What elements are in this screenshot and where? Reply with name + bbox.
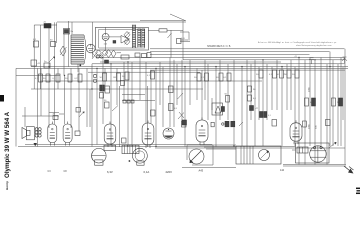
resistor R15 [194, 73, 201, 81]
capacitor C3 [177, 39, 182, 44]
tube V1 triode [87, 44, 96, 53]
tuning diamond D1 [124, 32, 130, 39]
box with triangle [212, 103, 225, 115]
wire [241, 67, 243, 146]
wire [57, 21, 186, 23]
wire [337, 64, 339, 146]
wire [286, 64, 288, 110]
wire [204, 60, 206, 100]
wire [24, 107, 26, 127]
wire [246, 60, 248, 146]
svg-text:1M: 1M [113, 77, 116, 79]
dial drum 2 [129, 148, 148, 163]
shield box (IF stage) [95, 27, 148, 50]
capacitor C12 [211, 122, 214, 127]
tube V5 [104, 122, 116, 148]
wire [15, 68, 17, 146]
wire [92, 22, 94, 58]
wire [100, 61, 281, 63]
volume pot arrows [178, 112, 184, 119]
resistor R13 [122, 72, 129, 80]
funnel electrode [121, 36, 130, 44]
label 100n upper [309, 86, 311, 92]
wire stub [180, 41, 190, 43]
wire [262, 60, 264, 146]
pot arrow upper [178, 93, 184, 99]
resistor R2 [50, 40, 56, 47]
wire [304, 60, 306, 165]
faint note [0, 0, 1, 1]
svg-text:6,3V: 6,3V [107, 170, 113, 174]
wire [122, 95, 155, 101]
capacitor C1 [44, 22, 52, 29]
tube V3 [48, 122, 57, 146]
wire [283, 165, 346, 167]
antenna lead-in wire [170, 14, 185, 21]
svg-text:144: 144 [280, 169, 285, 172]
tube V9 [290, 120, 302, 144]
wire [54, 22, 56, 124]
IF transformer T1 secondary winding [138, 29, 141, 48]
wire [147, 86, 149, 147]
capacitor C14 [272, 120, 277, 127]
resistor R16 [201, 73, 209, 81]
coupling caps (dark) [222, 121, 235, 127]
wire [173, 60, 175, 127]
tuning disc [189, 149, 204, 164]
svg-text:ohne Netzspannung abgleichen u: ohne Netzspannung abgleichen usw. [296, 44, 332, 47]
dial box 1 [104, 145, 116, 150]
wire [215, 67, 217, 147]
component cluster [135, 53, 151, 58]
wire [227, 64, 229, 120]
coil L2 (dark) [100, 85, 105, 98]
wire [78, 68, 80, 131]
wire [63, 29, 65, 75]
wire [184, 67, 186, 147]
wire [169, 58, 171, 128]
label C3 [48, 170, 52, 173]
capacitor C2 [64, 29, 74, 35]
capacitor C13 (dark) [250, 106, 259, 111]
loudspeaker LS [22, 127, 34, 140]
coupling box [75, 131, 80, 136]
aerial symbol 2 [342, 57, 347, 63]
svg-text:2M: 2M [283, 74, 286, 76]
trim arrow drum [330, 142, 337, 148]
wire [150, 54, 310, 56]
wire [314, 60, 316, 165]
note line 1 [258, 41, 337, 44]
resistor R4 [44, 61, 50, 68]
resistor R9 [65, 74, 72, 82]
wire [150, 48, 345, 50]
svg-text:A43: A43 [199, 169, 204, 173]
svg-text:100n: 100n [309, 86, 311, 92]
capacitor C7 [182, 121, 187, 127]
tube V6 [142, 121, 154, 149]
output transformer T2 [35, 128, 41, 137]
resistor R3 [31, 60, 41, 66]
resistor R17 [216, 73, 223, 81]
label 0,05 [181, 38, 186, 40]
wire [140, 20, 186, 22]
registration mark [0, 95, 4, 102]
wire [150, 70, 152, 123]
wire [219, 60, 221, 120]
wire [342, 67, 344, 120]
resistor R8 [52, 74, 60, 82]
text sperrkreis [207, 45, 231, 48]
coil L1 fan winding [71, 35, 86, 64]
wire [71, 22, 73, 34]
wire [96, 68, 98, 144]
resistor R34 [151, 110, 156, 116]
wire [37, 68, 39, 146]
tube V8 [196, 118, 208, 146]
wire [34, 24, 57, 26]
wire [170, 30, 172, 58]
wire [201, 70, 203, 120]
dial drum 1 [92, 148, 107, 165]
wire [294, 67, 296, 146]
resistor R30 [312, 98, 316, 106]
wire [33, 25, 35, 89]
capacitor C15 [122, 138, 127, 143]
wire [77, 64, 79, 72]
arrow [79, 112, 85, 118]
resistor R31 [332, 98, 341, 106]
wire [91, 64, 93, 147]
label 100n [309, 123, 311, 129]
tuning frame [187, 145, 213, 165]
resistor R29 [305, 98, 314, 106]
wire [181, 60, 183, 120]
wire [250, 64, 252, 120]
wire [254, 60, 256, 146]
resistor R36 [303, 121, 307, 127]
wire [281, 67, 283, 146]
mains drum [310, 146, 326, 162]
resistor R10 [74, 74, 82, 82]
wire [258, 67, 260, 120]
wire [64, 75, 66, 124]
title text small [5, 181, 9, 190]
resistor R5 [148, 29, 183, 32]
wire [106, 27, 121, 50]
resistor R23 [292, 70, 299, 78]
svg-text:A. bei ca. 468 kHz Abgl. m. In: A. bei ca. 468 kHz Abgl. m. Instr. u. Os… [258, 41, 337, 44]
wire [276, 60, 278, 110]
wire [332, 60, 334, 146]
switch contacts S1 [93, 74, 96, 82]
wire [196, 68, 198, 100]
wire [31, 88, 203, 90]
capacitor row [123, 100, 134, 103]
wire arrow [239, 122, 243, 126]
resistor R35 [169, 86, 174, 93]
resistor R14 [147, 71, 155, 79]
wire [340, 58, 342, 147]
svg-text:SPERRKREIS F. O. B.: SPERRKREIS F. O. B. [207, 45, 231, 48]
tube V2 (mixer) [102, 33, 116, 45]
wire [88, 71, 200, 73]
wire [57, 68, 59, 89]
grid cap wire [59, 113, 64, 115]
motor rotor [259, 150, 270, 161]
wire [139, 58, 141, 101]
wire [86, 68, 88, 127]
wire stub [180, 32, 189, 41]
wire [18, 146, 292, 148]
wire [344, 49, 346, 165]
title text main [4, 111, 11, 178]
wire [127, 62, 129, 147]
label 0,1A [144, 170, 150, 174]
resistor R12 [113, 73, 121, 81]
wire [183, 59, 345, 61]
wire [290, 60, 292, 110]
wire [131, 62, 133, 147]
junction marker [34, 143, 38, 146]
mains plug arrow [344, 166, 354, 174]
tube V4 [63, 122, 72, 146]
grid resistor [76, 108, 81, 113]
wire [176, 64, 178, 105]
wire [189, 60, 191, 105]
label C8 [64, 170, 68, 173]
wire [104, 68, 106, 86]
wire [56, 22, 58, 43]
potentiometer arrow [112, 106, 118, 112]
resistor R22 [283, 70, 291, 78]
wire [16, 67, 348, 69]
wire [16, 74, 60, 76]
padder diamond D3 [106, 50, 112, 58]
wire [329, 52, 331, 146]
resistor R32 [339, 98, 343, 106]
resistor R1 [33, 39, 39, 47]
wire [182, 21, 184, 60]
IF transformer T1 tertiary winding [142, 29, 145, 48]
svg-text:Olympic 39 W W 564 A: Olympic 39 W W 564 A [4, 111, 11, 178]
wire [155, 68, 157, 146]
resistor R21 [276, 70, 283, 78]
wire [155, 147, 345, 149]
wire [102, 58, 104, 125]
lamp strip [122, 145, 139, 153]
wire [68, 21, 70, 67]
wire [159, 62, 161, 105]
wire [150, 69, 345, 71]
wire [326, 64, 328, 165]
capacitor C9 [326, 120, 331, 126]
wire [271, 67, 273, 110]
wire [298, 58, 300, 165]
label 220V [166, 170, 173, 174]
wire [150, 51, 330, 53]
wire [283, 164, 346, 166]
svg-text:100n: 100n [309, 123, 311, 129]
wire [39, 25, 41, 89]
wire [119, 86, 121, 147]
svg-text:Horny: Horny [5, 181, 9, 190]
padder diamond D4 [111, 50, 116, 58]
capacitor C10 [53, 114, 59, 120]
wire [123, 62, 125, 100]
diamond D5 [96, 50, 102, 56]
wire [31, 66, 348, 68]
dial box 2 [137, 161, 144, 165]
resistor R24 [105, 86, 110, 93]
label 144 [280, 169, 285, 172]
wire [162, 67, 164, 127]
wire [48, 23, 50, 128]
capacitor C5 [121, 55, 129, 59]
caps (dark) right [260, 112, 272, 118]
wire [309, 58, 311, 147]
wire [110, 64, 112, 145]
resistor R6 [35, 74, 43, 82]
resistor R26 [225, 94, 230, 103]
resistor R27 [248, 86, 257, 92]
shield box inner [99, 29, 145, 48]
power box [292, 143, 329, 163]
publisher logo [356, 188, 360, 193]
wire [211, 98, 213, 110]
tube V7 (magic eye) [163, 128, 174, 139]
aerial symbol 1 [309, 58, 314, 64]
label 41 [295, 56, 298, 58]
resistor R28 [248, 95, 257, 101]
resistor R7 [43, 74, 50, 82]
trimmer arrow left [49, 57, 55, 63]
fuse block [297, 147, 308, 153]
wire [233, 60, 235, 146]
motor box [236, 146, 281, 164]
capacitor C11 [121, 81, 125, 86]
IF transformer T1 primary winding [133, 25, 136, 48]
resistor R19 [256, 70, 263, 78]
resistor R20 [269, 70, 277, 78]
wire [40, 80, 262, 82]
wire [117, 52, 122, 54]
trimmer arrow [60, 46, 81, 66]
wire [70, 68, 72, 128]
switch dark blob [105, 60, 109, 63]
wire [92, 63, 345, 65]
wire [22, 115, 59, 117]
wire [116, 68, 118, 105]
wire [266, 64, 268, 120]
wire [25, 144, 212, 146]
wire [320, 58, 322, 147]
wire [96, 57, 345, 59]
wire [200, 145, 236, 149]
wire [145, 62, 147, 123]
wire [89, 89, 91, 127]
capacitor C6 [104, 100, 109, 108]
label A43 [199, 169, 204, 173]
wire [182, 167, 236, 169]
trimmer arrow 2 [168, 33, 172, 38]
motor stripes [241, 146, 253, 164]
wire [49, 112, 59, 114]
resistor R25 [169, 104, 178, 111]
diamond D6 [102, 50, 108, 56]
note line 2 [296, 44, 332, 47]
band switch contacts [96, 55, 103, 58]
wire [40, 68, 42, 116]
wire [207, 64, 209, 120]
label 50n [316, 125, 318, 129]
wire stub [180, 39, 188, 41]
capacitor C8 (dark) [182, 120, 187, 125]
resistor R18 [223, 73, 231, 81]
svg-text:0,1A: 0,1A [144, 170, 150, 174]
resistor R11 [99, 73, 106, 81]
variable capacitor arrow [92, 52, 98, 59]
label 6,3V [107, 170, 113, 174]
svg-text:220V: 220V [166, 170, 173, 174]
tuning diamond D2 [124, 38, 130, 45]
